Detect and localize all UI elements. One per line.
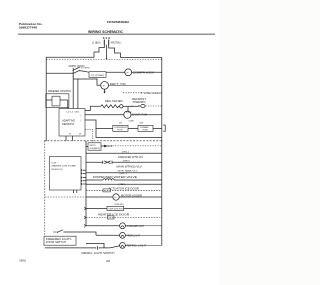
svg-text:HEATER ICE DOOR: HEATER ICE DOOR <box>98 213 130 216</box>
label dispenser water valve <box>93 176 138 179</box>
label some models small <box>115 204 124 206</box>
svg-text:HTR: HTR <box>118 130 124 132</box>
water valve solenoid L1 <box>103 161 112 164</box>
freezer control wires <box>46 99 68 101</box>
svg-text:NO OPEN: NO OPEN <box>81 68 90 70</box>
defrost control terminal box <box>89 72 106 78</box>
svg-text:(WHT): (WHT) <box>120 173 127 175</box>
wire board to heater boxes <box>85 120 113 128</box>
wire box to compressor <box>106 71 125 73</box>
main water valve row <box>86 161 103 163</box>
ground dashed wire <box>46 59 162 61</box>
label EVAP FAN <box>132 114 147 117</box>
svg-text:ICEMKR: ICEMKR <box>90 148 101 150</box>
svg-text:5995377448: 5995377448 <box>19 25 37 29</box>
title WIRING SCHEMATIC <box>88 30 124 34</box>
icemaker water valve row <box>86 152 162 154</box>
ground prong wire <box>106 45 108 58</box>
label DEF TIMER <box>110 83 126 86</box>
defrost timer motor <box>101 82 109 90</box>
svg-text:WTR TANK VLV: WTR TANK VLV <box>118 169 139 172</box>
dispenser heater row <box>86 208 107 210</box>
svg-text:ACTUATOR ICE DOOR: ACTUATOR ICE DOOR <box>109 187 140 190</box>
svg-text:SOME MODELS: SOME MODELS <box>144 92 163 95</box>
label PNK small <box>126 112 133 114</box>
dispenser light LP1 <box>120 223 126 229</box>
board bottom wires <box>66 136 72 141</box>
svg-text:NEUTRAL (: NEUTRAL ( <box>111 42 122 45</box>
svg-text:ICE: ICE <box>52 162 58 164</box>
refrig door switch <box>95 246 120 250</box>
svg-text:ICEMAKER WTR VLV: ICEMAKER WTR VLV <box>118 156 144 159</box>
dashed enclosure bottom <box>45 196 86 198</box>
svg-text:THERMO: THERMO <box>132 101 145 104</box>
svg-text:09/02: 09/02 <box>19 258 26 262</box>
svg-text:(TAN): (TAN) <box>119 183 126 186</box>
board dashed DF wire <box>85 129 93 142</box>
svg-text:EVAP. FAN: EVAP. FAN <box>132 114 147 117</box>
defrost control contact labels <box>81 68 90 70</box>
refrig light row wire <box>45 247 95 249</box>
freezer light door switch box <box>44 236 76 245</box>
defrost control switch S1 <box>73 67 89 79</box>
svg-text:DOOR SWITCH: DOOR SWITCH <box>46 242 66 244</box>
wire evap fan to bus <box>131 114 162 116</box>
wire junction down to evap fan <box>127 106 129 111</box>
dispenser valve coil <box>103 179 114 180</box>
header rule <box>18 33 215 35</box>
ice maker small box <box>88 143 101 150</box>
icemaker node <box>111 145 112 146</box>
svg-text:TF: TF <box>126 72 128 74</box>
svg-text:DISPENSER LIGHT: DISPENSER LIGHT <box>127 226 145 228</box>
wire between heater boxes <box>128 127 138 129</box>
label dispenser light <box>127 226 145 228</box>
freezer control inner thermostat box <box>52 96 60 106</box>
svg-text:FREEZER CONTROL: FREEZER CONTROL <box>48 90 72 93</box>
icemaker bottom ticks <box>74 190 77 193</box>
upper jog wire <box>86 243 104 248</box>
ground node dot <box>106 58 108 60</box>
wire board to evap fan <box>85 114 124 116</box>
svg-text:L1 (BLK): L1 (BLK) <box>92 42 101 45</box>
wire L1 left drop <box>46 45 104 57</box>
connector bracket at bus <box>163 125 165 131</box>
plug prong left <box>103 40 105 46</box>
section separator dashed <box>44 140 163 142</box>
connector bumps lower bus <box>83 207 86 227</box>
freezer light LP2 <box>120 232 126 238</box>
junction node dot <box>131 106 132 107</box>
timer arrow down <box>104 89 105 93</box>
svg-text:(GRY): (GRY) <box>123 160 130 162</box>
defrost control label <box>69 65 86 68</box>
defrost heater R1 zigzag <box>101 105 120 108</box>
dispenser heater box <box>107 206 124 210</box>
freezer control label <box>48 90 72 93</box>
freezer light switch wire <box>53 231 57 233</box>
defrost control lower wire <box>73 78 97 80</box>
wire compressor to bus <box>132 71 162 73</box>
svg-text:REFRIG. LIGHT SWITCH: REFRIG. LIGHT SWITCH <box>82 253 115 255</box>
header text model <box>107 20 129 24</box>
svg-text:20: 20 <box>106 259 110 263</box>
dispenser water valve row <box>86 179 103 181</box>
svg-text:MODELS): MODELS) <box>52 169 63 171</box>
label L1 BLK <box>92 42 101 45</box>
defrost thermostat node <box>138 105 140 107</box>
actuator ice door row dashed <box>86 189 162 191</box>
adaptive defrost board U1 <box>59 109 85 137</box>
svg-text:MAIN WTR(S) VLV: MAIN WTR(S) VLV <box>116 166 142 169</box>
heater box HTR2 <box>138 125 153 131</box>
svg-text:CL (PNK): CL (PNK) <box>91 75 105 77</box>
header text publication <box>19 22 43 29</box>
wire right neutral bus <box>161 57 163 245</box>
evaporator fan motor <box>124 111 131 118</box>
label COMPR ASSY <box>133 72 156 75</box>
plug prong right <box>108 40 110 46</box>
ice door heater element <box>108 216 115 219</box>
label actuator ice door <box>109 187 140 190</box>
svg-text:FREEZER LIGHT-: FREEZER LIGHT- <box>46 239 72 241</box>
svg-text:(SOME MDL): (SOME MDL) <box>115 204 124 206</box>
label heater ice door <box>98 213 130 216</box>
wire left bus <box>45 57 47 141</box>
wire board to heater <box>85 106 101 110</box>
freezer door switch <box>57 230 96 236</box>
svg-text:L2 L1 CM: L2 L1 CM <box>67 112 79 114</box>
auger motor M2 <box>113 194 119 200</box>
defrost thermostat <box>141 104 145 107</box>
dashed wire thermostat to bus <box>145 105 161 107</box>
mid distribution bus <box>85 141 87 226</box>
wire to defrost timer <box>97 79 100 85</box>
svg-text:REFRIG. LIGHT: REFRIG. LIGHT <box>127 246 147 248</box>
svg-text:50W: 50W <box>129 120 134 122</box>
label motor auger <box>121 194 142 197</box>
svg-text:3W: 3W <box>119 122 122 124</box>
ice door heater row dashed <box>86 217 162 219</box>
svg-text:DF: DF <box>69 133 71 135</box>
wire neutral right drop <box>109 45 162 57</box>
wire boxes to bus <box>153 127 162 129</box>
svg-text:DEFL HEATER: DEFL HEATER <box>105 100 123 103</box>
label DEFROST THERMO <box>132 98 147 104</box>
big ice maker box <box>50 157 82 191</box>
svg-text:(YEL): (YEL) <box>122 151 129 153</box>
auger motor row <box>86 196 113 198</box>
svg-text:DISP WTR HTR: DISP WTR HTR <box>108 209 123 211</box>
label refrig light <box>127 246 147 248</box>
svg-text:HTR: HTR <box>143 130 149 132</box>
svg-text:MAKER (ON SOME: MAKER (ON SOME <box>52 165 77 168</box>
dashed some models wire <box>123 92 142 94</box>
dashed wire icemaker to bus <box>112 145 161 147</box>
page number <box>106 259 110 263</box>
tan row <box>86 183 162 185</box>
spare row WHT <box>86 172 162 174</box>
compressor M1 <box>125 69 132 76</box>
svg-text:DF: DF <box>79 133 81 135</box>
svg-text:FRS26R2BB2: FRS26R2BB2 <box>107 20 129 24</box>
svg-text:FRZR LIGHT: FRZR LIGHT <box>127 236 141 238</box>
icemaker connector pins <box>81 169 86 185</box>
footer date <box>19 258 26 262</box>
plug prong numbers <box>103 36 111 40</box>
wire freezer neutral <box>96 128 162 137</box>
svg-text:MOTOR AUGER: MOTOR AUGER <box>121 194 142 197</box>
heater box HTR1 <box>113 125 128 131</box>
wire thermostat to board <box>67 100 69 107</box>
label water tank <box>118 169 139 172</box>
svg-text:DISPENSER WATER VALVE: DISPENSER WATER VALVE <box>93 176 138 179</box>
label SOME MODELS <box>144 92 163 95</box>
frzr light row <box>96 234 120 236</box>
label DEFROST HEATER <box>105 100 123 103</box>
wire icemaker row <box>86 145 111 147</box>
svg-text:WTR: WTR <box>90 145 97 147</box>
label frzr light <box>127 236 141 238</box>
wire heater to thermostat <box>123 105 138 107</box>
left dashed bus lower <box>44 141 46 236</box>
refrig light LP3 <box>120 243 126 249</box>
wattage labels <box>119 122 143 124</box>
svg-text:WIRING SCHEMATIC: WIRING SCHEMATIC <box>88 30 124 34</box>
label refrig light switch <box>82 253 115 255</box>
wire to defrost control <box>46 72 73 74</box>
dispenser light row <box>86 225 120 227</box>
wattage label under fan <box>129 120 134 122</box>
svg-text:50W: 50W <box>140 122 144 124</box>
label NEUTRAL <box>111 42 122 45</box>
svg-text:DEFROST: DEFROST <box>62 123 75 126</box>
wire timer to bus <box>109 84 162 86</box>
heater terminal circle <box>120 105 123 108</box>
freezer control outer box <box>46 94 69 108</box>
board input wires <box>68 79 78 109</box>
actuator element box <box>103 189 110 192</box>
